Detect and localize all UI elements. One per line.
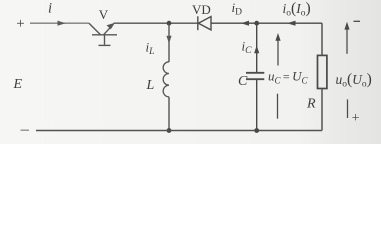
svg-text:VD: VD [192, 2, 211, 17]
node junction capacitor top [254, 21, 259, 26]
svg-text:i: i [48, 1, 52, 17]
output minus sign [354, 20, 361, 22]
current arrow i_C [242, 39, 260, 57]
wire top-right [257, 22, 322, 24]
inductor branch wire lower [168, 97, 170, 131]
current arrow i [48, 1, 66, 26]
voltage arrow u_o [344, 22, 349, 118]
wire diode to capacitor node [211, 22, 257, 24]
svg-text:E: E [13, 77, 23, 92]
capacitor C plates [246, 73, 264, 79]
wire right vertical upper [321, 23, 323, 55]
current arrow i_L [146, 36, 172, 57]
transistor V [89, 23, 117, 46]
wire bottom rail [36, 130, 322, 132]
svg-text:L: L [146, 78, 155, 93]
wire top-left [30, 22, 89, 24]
svg-text:+: + [352, 111, 360, 126]
resistor R [318, 55, 327, 88]
inductor branch wire upper [168, 23, 170, 62]
voltage arrow u_C [275, 33, 280, 119]
capacitor C upper lead [256, 23, 258, 72]
svg-text:uo(Uo): uo(Uo) [336, 71, 372, 90]
svg-text:R: R [306, 97, 316, 112]
capacitor C lower lead [256, 79, 258, 130]
node junction inductor top [167, 21, 172, 26]
node junction capacitor bottom [254, 128, 259, 133]
wire right vertical lower [321, 89, 323, 131]
svg-text:+: + [16, 16, 24, 32]
wire transistor to diode [114, 22, 198, 24]
current arrow i_o(I_o) [283, 0, 311, 26]
terminal - (source negative) [21, 129, 30, 131]
svg-text:C: C [238, 74, 248, 89]
node junction inductor bottom [167, 128, 172, 133]
inductor L coil [163, 62, 169, 97]
diode VD [198, 16, 211, 30]
svg-text:V: V [99, 7, 109, 22]
current arrow i_D [232, 0, 250, 26]
